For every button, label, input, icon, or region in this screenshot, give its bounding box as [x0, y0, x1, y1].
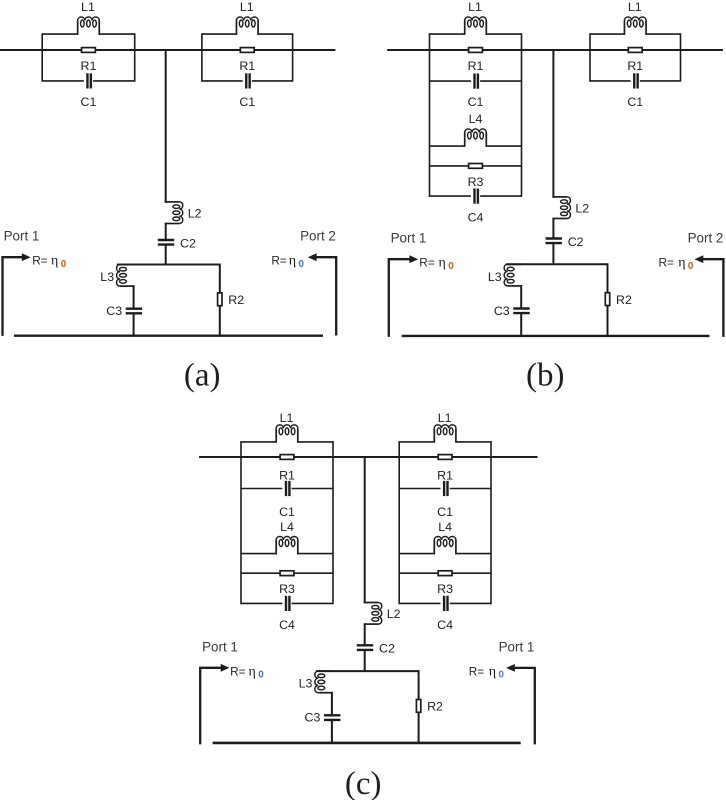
port line Port 1: [200, 668, 221, 745]
svg-text:R2: R2: [616, 293, 632, 307]
resistor R1: [469, 48, 483, 53]
inductor L2: [553, 197, 571, 219]
port label Port 2: [300, 229, 336, 244]
resistor R1: [82, 48, 96, 53]
label C1: [81, 95, 97, 109]
port label Port 1: [202, 639, 238, 654]
capacitor C2: [357, 645, 373, 650]
svg-text:R1: R1: [239, 59, 255, 73]
wire C3 to ground: [520, 313, 522, 336]
label R3: [279, 582, 295, 596]
label L1: [468, 0, 482, 14]
label L1: [438, 411, 452, 425]
wire C3 to ground: [331, 720, 333, 743]
label L4: [438, 520, 452, 534]
label R1: [239, 59, 255, 73]
svg-text:L1: L1: [628, 0, 642, 14]
port label Port 2: [688, 231, 724, 246]
svg-text:C1: C1: [81, 95, 97, 109]
wire main line (c): [199, 456, 538, 458]
inductor L1: [276, 425, 298, 443]
wire L3 to C3: [331, 692, 333, 715]
svg-text:R1: R1: [437, 469, 453, 483]
wire L3 to C3: [133, 285, 135, 308]
svg-text:Port 1: Port 1: [391, 231, 427, 246]
resistor R2: [416, 700, 420, 713]
svg-text:R1: R1: [81, 59, 97, 73]
inductor L2: [165, 202, 183, 224]
capacitor C4: [475, 189, 478, 204]
label L4: [469, 112, 483, 126]
capacitor C1: [444, 481, 447, 496]
svg-text:C1: C1: [279, 505, 295, 519]
port line Port 1: [3, 257, 23, 336]
wire C2 to node: [364, 650, 366, 671]
capacitor C1: [286, 481, 289, 496]
svg-text:L4: L4: [280, 520, 294, 534]
inductor L3: [504, 264, 522, 286]
svg-text:η: η: [678, 256, 685, 271]
capacitor C1: [634, 73, 637, 88]
impedance label Port 1: [469, 664, 505, 680]
label C2: [568, 235, 584, 249]
impedance label Port 2: [659, 256, 694, 272]
wire junction drop (b): [552, 49, 554, 198]
port line Port 1: [515, 668, 535, 745]
label R1: [279, 469, 295, 483]
wire L2 to C2: [165, 223, 167, 240]
svg-text:R3: R3: [279, 582, 295, 596]
svg-text:0: 0: [299, 259, 305, 270]
svg-text:C4: C4: [279, 618, 295, 632]
capacitor C3: [324, 715, 340, 720]
svg-text:R=: R=: [659, 256, 675, 270]
resistor R2: [605, 293, 609, 306]
resistor R1: [628, 48, 642, 53]
svg-text:R2: R2: [228, 293, 244, 307]
arrow Port 1: [221, 664, 230, 672]
wire main line (a): [0, 49, 335, 51]
wire ground line (c): [213, 742, 521, 745]
inductor L1: [236, 17, 258, 35]
label C4: [279, 618, 295, 632]
label R1: [81, 59, 97, 73]
extended tank box outline: [241, 441, 333, 604]
svg-text:L4: L4: [438, 520, 452, 534]
wire ground line (b): [402, 335, 710, 337]
svg-text:L2: L2: [387, 607, 401, 621]
svg-text:L3: L3: [488, 270, 502, 284]
svg-text:L1: L1: [468, 0, 482, 14]
label C3: [106, 304, 122, 318]
label R1: [437, 469, 453, 483]
caption (c): [345, 766, 382, 800]
label L1: [240, 0, 254, 14]
figure (a): [0, 0, 336, 394]
inductor L1: [465, 17, 487, 35]
svg-text:C1: C1: [239, 95, 255, 109]
figure (c): [199, 411, 538, 800]
label C1: [437, 505, 453, 519]
svg-text:η: η: [289, 254, 296, 269]
inductor L1: [434, 425, 456, 443]
label R2: [228, 293, 244, 307]
capacitor C2: [546, 239, 562, 244]
port line Port 1: [389, 259, 410, 337]
svg-text:Port 1: Port 1: [4, 229, 40, 244]
label R1: [627, 59, 643, 73]
svg-text:C1: C1: [437, 505, 453, 519]
wire from junction down to L2: [364, 602, 366, 605]
svg-text:R3: R3: [437, 582, 453, 596]
wire L3 to C3: [520, 285, 522, 308]
capacitor C2: [158, 240, 174, 245]
label L1: [280, 411, 294, 425]
svg-text:η: η: [439, 256, 446, 271]
label R3: [437, 582, 453, 596]
label L3: [488, 270, 502, 284]
svg-text:L3: L3: [100, 270, 114, 284]
svg-text:C1: C1: [627, 95, 643, 109]
impedance label Port 1: [230, 664, 264, 680]
capacitor C3: [126, 309, 142, 314]
wire junction drop (c): [364, 456, 366, 603]
wire node to R2: [418, 670, 420, 743]
resistor R3: [469, 164, 483, 169]
label L2: [188, 206, 202, 220]
label C4: [468, 211, 484, 225]
svg-text:R2: R2: [427, 700, 443, 714]
wire ground line (a): [14, 335, 323, 337]
inductor L3: [117, 265, 135, 287]
wire C3 to ground: [133, 313, 135, 335]
svg-text:(b): (b): [526, 358, 564, 394]
caption (b): [526, 358, 564, 394]
capacitor C1: [246, 73, 249, 88]
svg-text:Port 1: Port 1: [499, 639, 535, 654]
inductor L1: [78, 17, 100, 35]
svg-text:η: η: [51, 254, 58, 269]
label L1: [81, 0, 95, 14]
wire from junction down to L2: [552, 196, 554, 199]
label C4: [437, 618, 453, 632]
svg-text:L1: L1: [438, 411, 452, 425]
svg-text:Port 2: Port 2: [300, 229, 336, 244]
inductor L1: [624, 17, 646, 35]
resistor R1: [438, 455, 452, 460]
svg-text:η: η: [249, 664, 256, 679]
svg-text:Port 1: Port 1: [202, 639, 238, 654]
svg-text:C1: C1: [468, 95, 484, 109]
svg-text:C4: C4: [437, 618, 453, 632]
wire node to R2: [607, 263, 609, 336]
port line Port 2: [316, 257, 336, 335]
svg-text:0: 0: [448, 261, 454, 272]
label C1: [279, 505, 295, 519]
wire node to R2: [219, 264, 221, 336]
label R3: [468, 175, 484, 189]
extended tank box outline: [399, 441, 491, 604]
svg-text:C2: C2: [568, 235, 584, 249]
wire main line (b): [387, 49, 723, 51]
wire L2 to C2: [552, 218, 554, 239]
label L3: [299, 677, 313, 691]
label C2: [180, 236, 196, 250]
extended tank box outline: [430, 33, 522, 197]
impedance label Port 2: [271, 254, 304, 270]
svg-text:R=: R=: [32, 254, 48, 268]
svg-text:η: η: [489, 664, 496, 679]
capacitor C1: [87, 73, 90, 88]
capacitor C4: [286, 596, 289, 611]
resistor R3: [438, 571, 452, 576]
svg-text:R1: R1: [279, 469, 295, 483]
svg-text:R=: R=: [419, 256, 435, 270]
tank circuit box outline: [42, 33, 135, 81]
svg-text:L3: L3: [299, 677, 313, 691]
label L4: [280, 520, 294, 534]
resistor R1: [240, 48, 254, 53]
svg-text:(a): (a): [184, 358, 221, 394]
svg-text:C3: C3: [305, 711, 321, 725]
label C3: [494, 304, 510, 318]
capacitor C4: [444, 596, 447, 611]
svg-text:R3: R3: [468, 175, 484, 189]
label C2: [379, 642, 395, 656]
svg-text:R=: R=: [230, 664, 246, 678]
arrow Port 1: [22, 253, 31, 261]
inductor L3: [315, 671, 333, 693]
svg-text:L1: L1: [81, 0, 95, 14]
inductor L4: [434, 537, 456, 555]
wire C2 to node: [165, 245, 167, 265]
label L3: [100, 270, 114, 284]
svg-text:R=: R=: [271, 254, 287, 268]
tank circuit box outline: [202, 33, 293, 81]
svg-text:0: 0: [688, 261, 694, 272]
label C3: [305, 711, 321, 725]
svg-text:L2: L2: [188, 206, 202, 220]
arrow Port 1: [409, 255, 418, 263]
label R2: [427, 700, 443, 714]
svg-text:C4: C4: [468, 211, 484, 225]
svg-text:L2: L2: [575, 201, 589, 215]
svg-text:L1: L1: [280, 411, 294, 425]
svg-text:R=: R=: [469, 664, 485, 678]
port line Port 2: [703, 259, 723, 337]
impedance label Port 1: [32, 254, 66, 270]
svg-text:L4: L4: [469, 112, 483, 126]
inductor L2: [364, 603, 382, 625]
svg-text:R1: R1: [627, 59, 643, 73]
label L2: [575, 201, 589, 215]
svg-text:C2: C2: [180, 236, 196, 250]
arrow Port 1: [506, 664, 515, 672]
label C1: [627, 95, 643, 109]
svg-text:L1: L1: [240, 0, 254, 14]
label C1: [239, 95, 255, 109]
caption (a): [184, 358, 221, 394]
wire L2 to C2: [364, 623, 366, 645]
svg-text:0: 0: [499, 670, 505, 681]
svg-text:0: 0: [258, 669, 264, 680]
wire C2 to node: [552, 243, 554, 264]
label R2: [616, 293, 632, 307]
capacitor C3: [513, 309, 529, 314]
label L1: [628, 0, 642, 14]
inductor L4: [276, 537, 298, 555]
inductor L4: [465, 129, 487, 147]
arrow Port 2: [308, 253, 317, 261]
svg-text:C2: C2: [379, 642, 395, 656]
port label Port 1: [4, 229, 40, 244]
svg-text:C3: C3: [494, 304, 510, 318]
resistor R2: [218, 293, 222, 306]
arrow Port 2: [695, 255, 704, 263]
resistor R3: [280, 571, 294, 576]
wire from junction down to L2: [165, 201, 167, 204]
svg-text:Port 2: Port 2: [688, 231, 724, 246]
svg-text:R1: R1: [468, 59, 484, 73]
label L2: [387, 607, 401, 621]
tank circuit box outline: [590, 33, 681, 81]
figure (b): [387, 0, 723, 394]
svg-text:C3: C3: [106, 304, 122, 318]
resistor R1: [280, 455, 294, 460]
node line: [117, 264, 220, 266]
node line: [316, 670, 419, 672]
label C1: [468, 95, 484, 109]
port label Port 1: [391, 231, 427, 246]
port label Port 1: [499, 639, 535, 654]
svg-text:(c): (c): [345, 766, 382, 800]
node line: [506, 263, 608, 265]
impedance label Port 1: [419, 256, 454, 272]
capacitor C1: [475, 74, 478, 89]
wire junction drop (a): [165, 49, 167, 203]
label R1: [468, 59, 484, 73]
svg-text:0: 0: [61, 259, 67, 270]
